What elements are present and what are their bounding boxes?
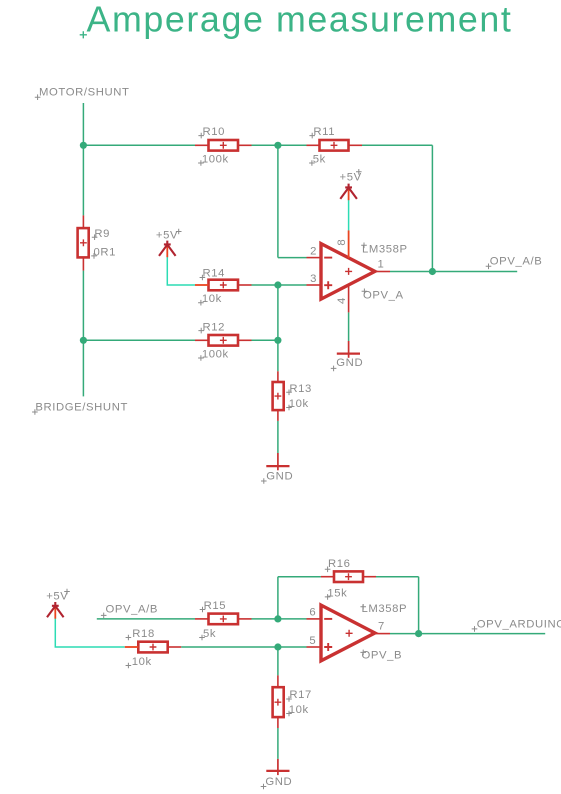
svg-text:100k: 100k — [202, 349, 229, 361]
svg-text:MOTOR/SHUNT: MOTOR/SHUNT — [39, 87, 130, 99]
svg-text:0R1: 0R1 — [94, 246, 117, 258]
svg-text:OPV_A/B: OPV_A/B — [490, 255, 543, 267]
svg-text:5: 5 — [309, 635, 316, 647]
svg-text:OPV_A/B: OPV_A/B — [106, 604, 159, 616]
svg-text:+5V: +5V — [46, 591, 68, 603]
svg-text:R17: R17 — [289, 689, 312, 701]
svg-text:5k: 5k — [203, 628, 216, 640]
svg-text:R15: R15 — [204, 600, 227, 612]
svg-text:10k: 10k — [289, 398, 309, 410]
svg-text:10k: 10k — [289, 704, 309, 716]
svg-text:6: 6 — [309, 607, 316, 619]
svg-text:R11: R11 — [313, 126, 335, 138]
svg-text:+5V: +5V — [340, 172, 362, 184]
svg-text:3: 3 — [310, 273, 317, 285]
svg-text:+5V: +5V — [156, 230, 178, 242]
svg-text:7: 7 — [378, 621, 385, 633]
svg-text:R16: R16 — [328, 558, 351, 570]
svg-text:GND: GND — [266, 470, 293, 482]
svg-text:BRIDGE/SHUNT: BRIDGE/SHUNT — [35, 402, 128, 414]
svg-text:5k: 5k — [313, 153, 326, 165]
svg-text:R18: R18 — [132, 628, 155, 640]
svg-text:4: 4 — [336, 297, 348, 304]
svg-text:GND: GND — [265, 776, 292, 788]
svg-text:2: 2 — [310, 245, 317, 257]
svg-text:OPV_A: OPV_A — [363, 290, 404, 302]
svg-text:LM358P: LM358P — [362, 244, 408, 256]
svg-text:R14: R14 — [203, 267, 226, 279]
svg-text:LM358P: LM358P — [362, 603, 408, 615]
svg-text:8: 8 — [336, 239, 348, 246]
svg-text:OPV_ARDUINO: OPV_ARDUINO — [477, 618, 561, 630]
svg-text:GND: GND — [336, 357, 363, 369]
svg-text:10k: 10k — [132, 656, 152, 668]
svg-text:R12: R12 — [203, 321, 226, 333]
svg-text:1: 1 — [378, 259, 385, 271]
svg-text:R13: R13 — [289, 383, 312, 395]
svg-text:R9: R9 — [94, 228, 110, 240]
svg-text:100k: 100k — [202, 153, 229, 165]
svg-text:OPV_B: OPV_B — [362, 650, 403, 662]
svg-text:10k: 10k — [202, 293, 222, 305]
svg-text:15k: 15k — [327, 587, 347, 599]
svg-text:R10: R10 — [203, 126, 226, 138]
svg-text:Amperage measurement: Amperage measurement — [87, 0, 513, 40]
